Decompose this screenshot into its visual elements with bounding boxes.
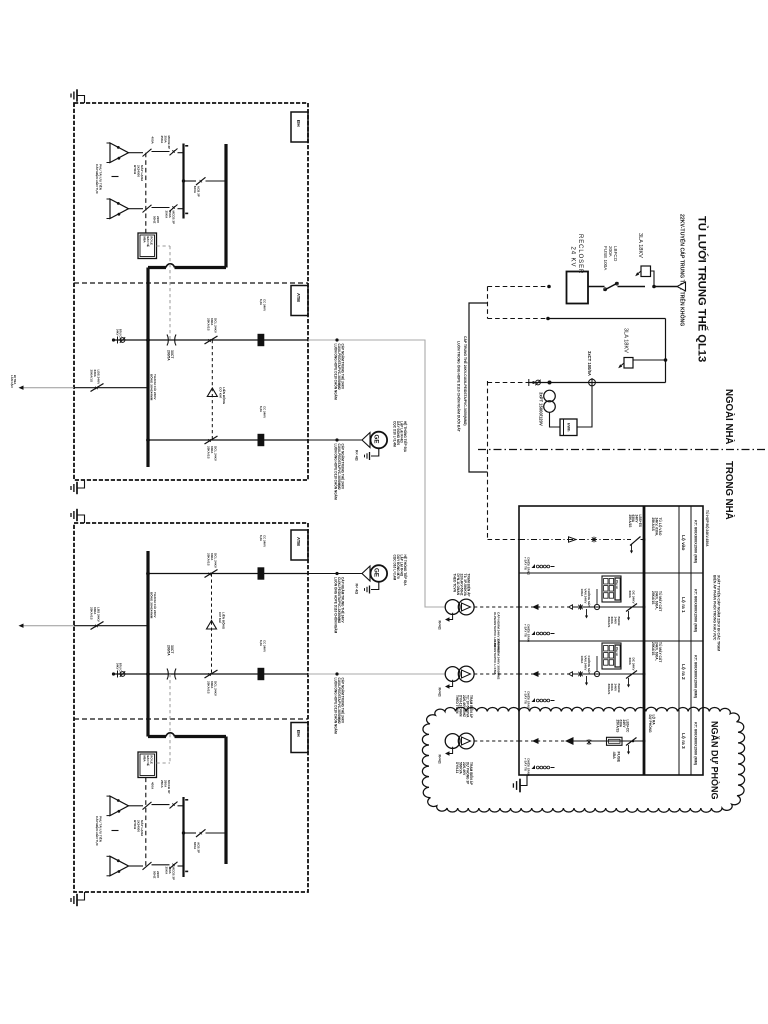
svg-text:R< 4Ω: R< 4Ω <box>355 450 359 461</box>
svg-text:25KA/1S: 25KA/1S <box>651 518 655 532</box>
svg-text:200/5A: 200/5A <box>166 350 170 361</box>
svg-text:CƠ KHÍ: CƠ KHÍ <box>219 387 224 398</box>
svg-text:RECLOSER: RECLOSER <box>577 234 583 274</box>
wire: riser to metering <box>548 319 666 383</box>
svg-text:25KA/1S: 25KA/1S <box>651 591 655 605</box>
svg-text:3LA 18KV: 3LA 18KV <box>637 233 643 258</box>
MV cable feeder 2 (box B, with CT+fuse) <box>112 640 308 697</box>
cell 2 aux symbols <box>523 624 554 643</box>
wire: loop feeder leaving page (box B) <box>19 624 75 628</box>
svg-text:50HZ: 50HZ <box>153 216 157 224</box>
wire: box B feeder 1 to grounding set GE2 <box>308 572 362 634</box>
svg-text:BTU/H: BTU/H <box>133 820 137 829</box>
svg-text:25KA/1S: 25KA/1S <box>207 318 211 331</box>
cell 2: feeder Lo ra 1 <box>519 576 646 627</box>
svg-text:CẤP ĐIỆN LIÊN TỤC: CẤP ĐIỆN LIÊN TỤC <box>95 816 100 847</box>
grounding set GE1 (R<4 ohm) <box>355 421 409 461</box>
svg-text:BTU/H: BTU/H <box>133 165 137 174</box>
svg-text:25KA: 25KA <box>165 867 169 876</box>
node: line tap to arrester LA1 <box>652 285 656 289</box>
wire: metering line <box>528 382 666 384</box>
svg-text:Lộ ra 1: Lộ ra 1 <box>680 597 686 613</box>
wire: control dashed link (box B) <box>157 674 171 763</box>
svg-text:600A: 600A <box>193 842 197 850</box>
svg-text:CẤP ĐIỆN LIÊN TỤC: CẤP ĐIỆN LIÊN TỤC <box>95 164 100 195</box>
transformer T3 (spare, in cloud) <box>438 733 520 786</box>
svg-text:BIẾN ÁP PHÂN PHỐI TRONG KHU VỰ: BIẾN ÁP PHÂN PHỐI TRONG KHU VỰC <box>712 575 717 641</box>
cell 1: incoming (Lo vao) <box>519 515 646 554</box>
svg-text:ATM: ATM <box>296 293 301 302</box>
svg-text:NGĂN DỰ PHÒNG: NGĂN DỰ PHÒNG <box>710 721 721 799</box>
svg-text:MBA: MBA <box>142 237 146 243</box>
svg-text:DYN-11: DYN-11 <box>455 762 459 773</box>
svg-text:kWh: kWh <box>567 423 572 432</box>
svg-text:400A: 400A <box>151 137 155 145</box>
svg-text:10KA: 10KA <box>580 656 584 665</box>
svg-text:TỦ LƯỚI TRUNG THẾ QL13: TỦ LƯỚI TRUNG THẾ QL13 <box>696 216 709 362</box>
svg-text:25KA: 25KA <box>160 780 164 789</box>
kWh meter <box>550 383 593 436</box>
svg-text:TỦ HỢP BỘ 24KV-630A: TỦ HỢP BỘ 24KV-630A <box>705 510 710 547</box>
svg-text:LUỒN TRONG ỐNG HDPE D110 CHÔN: LUỒN TRONG ỐNG HDPE D110 CHÔN NGẦM DƯỚI … <box>457 341 462 433</box>
wire: 22kV main line <box>588 286 677 288</box>
svg-text:CÁP TRUNG THẾ 24KV-CU/XLPE/DST: CÁP TRUNG THẾ 24KV-CU/XLPE/DSTA/PVC-3X50… <box>463 336 468 426</box>
svg-text:LUỒN ỐNG HDPE D110 CHÔN NGẦM: LUỒN ỐNG HDPE D110 CHÔN NGẦM <box>334 344 339 400</box>
LV sub busbar (box A) <box>184 144 189 219</box>
MV cable feeder 2 (box A, to GE ground set) <box>146 406 308 462</box>
svg-text:KT: 800X800X2000 (MM): KT: 800X800X2000 (MM) <box>694 655 698 699</box>
labels LV section (box B) <box>95 780 176 880</box>
svg-text:25KA: 25KA <box>160 136 164 145</box>
svg-text:3LA 18KV: 3LA 18KV <box>623 328 629 353</box>
relay/control box (box A) <box>138 153 157 259</box>
svg-text:6,3A: 6,3A <box>259 640 263 647</box>
ground (box B top-left) <box>71 509 85 523</box>
svg-text:25KA/1S: 25KA/1S <box>651 642 655 656</box>
svg-text:+ SẤY TỦ: + SẤY TỦ <box>523 691 528 704</box>
svg-text:50HZ: 50HZ <box>153 871 157 879</box>
svg-text:FUSE 100A: FUSE 100A <box>603 246 608 271</box>
cell 4: spare feeder Lo ra 3 <box>519 720 646 763</box>
wire: control dashed link (box A) <box>157 246 171 340</box>
svg-text:25KA/1S: 25KA/1S <box>90 370 94 383</box>
svg-text:TRONG NHÀ: TRONG NHÀ <box>723 461 734 520</box>
box A MV section label ATM <box>291 286 308 316</box>
cell 1 aux symbols <box>523 557 554 576</box>
MV riser busbar (box A) <box>148 283 158 467</box>
svg-text:6,3A: 6,3A <box>259 535 263 542</box>
MV feeder 1 (box B, to GE ground set) <box>146 535 308 580</box>
svg-text:DỰ PHÒNG: DỰ PHÒNG <box>648 715 653 734</box>
cloud: spare bay boundary <box>422 707 744 812</box>
svg-text:25KA/1S: 25KA/1S <box>615 720 619 733</box>
svg-text:Phụ tải: Phụ tải <box>615 580 619 589</box>
svg-text:25KA/1S: 25KA/1S <box>207 446 211 459</box>
svg-text:ĐỒNG 3X40X4MM: ĐỒNG 3X40X4MM <box>149 592 154 619</box>
relay/control box (box B) <box>138 752 157 866</box>
LV main busbar (box A, thick) <box>148 144 226 283</box>
surge arrester 3LA 18KV (metering side) <box>618 328 667 368</box>
svg-text:45A: 45A <box>612 752 617 759</box>
svg-text:THEO TCVN: THEO TCVN <box>453 574 457 593</box>
svg-text:KT: 800X800X2000 (MM): KT: 800X800X2000 (MM) <box>694 722 698 766</box>
MV loop LBS to neighbour (box B) <box>74 607 148 630</box>
incoming overhead line arrow <box>677 282 686 291</box>
transformer T1 22/0.4kV <box>438 574 520 653</box>
svg-text:XLPE/DSTA/PVC L=15M: XLPE/DSTA/PVC L=15M <box>493 639 497 674</box>
mechanical interlock (box A) <box>207 340 227 440</box>
ground (box A top-left) <box>71 89 85 103</box>
mechanical interlock (box B) <box>207 574 227 675</box>
svg-text:LÂN CẬN: LÂN CẬN <box>10 375 15 388</box>
LV sub busbar (box B) <box>184 797 189 877</box>
LV tie breaker branch (box B) <box>182 829 226 853</box>
ground (box A bottom-left) <box>71 480 85 494</box>
svg-text:600A: 600A <box>628 658 632 666</box>
cell dividers <box>519 573 703 641</box>
cell 3 aux symbols <box>523 691 554 710</box>
svg-text:ĐH: ĐH <box>296 120 301 127</box>
svg-text:30KA/S: 30KA/S <box>607 684 611 695</box>
svg-text:10KA: 10KA <box>580 589 584 598</box>
svg-text:400A: 400A <box>151 782 155 790</box>
svg-text:GE: GE <box>373 568 380 577</box>
wire: dashed cable duct down to indoor cell <box>488 381 529 540</box>
LV feeder load 1 (box A) <box>107 143 184 163</box>
CT 3xCT 100/5A <box>587 351 595 387</box>
cell 3: feeder Lo ra 2 <box>519 643 646 694</box>
cell name labels <box>680 535 686 749</box>
svg-text:ĐỒNG 3X40X4MM: ĐỒNG 3X40X4MM <box>149 374 154 401</box>
main busbar 24kV <box>643 506 646 775</box>
svg-text:Lộ ra 3: Lộ ra 3 <box>680 733 686 749</box>
svg-text:600A: 600A <box>628 591 632 599</box>
LV feeder load 2 (box A) <box>107 199 184 219</box>
box B LV section label DH <box>291 723 308 753</box>
svg-text:24KV: 24KV <box>116 329 120 336</box>
wire: box A feeder 1 to transformer T1 (gray) <box>308 338 445 607</box>
svg-text:CƠ KHÍ: CƠ KHÍ <box>218 612 223 623</box>
svg-text:25KA/1S: 25KA/1S <box>628 515 632 528</box>
label column rules <box>679 506 691 775</box>
wire: loop feeder leaving page (box A) <box>10 375 74 390</box>
LV main busbar (box B, thick) <box>148 719 226 864</box>
svg-text:Lộ vào: Lộ vào <box>680 535 686 551</box>
node: PT tap <box>548 381 552 385</box>
LV feeder load 1 (box B) <box>107 796 184 816</box>
labels LV section (box A) <box>95 136 176 225</box>
recloser <box>567 234 589 304</box>
ground (box B bottom-left) <box>71 892 85 906</box>
cell size labels <box>694 520 698 766</box>
svg-text:6,3A: 6,3A <box>259 299 263 306</box>
svg-text:R< 4Ω: R< 4Ω <box>355 584 359 595</box>
svg-text:R<4Ω: R<4Ω <box>438 688 442 697</box>
cell 4 aux symbols <box>523 758 554 777</box>
svg-text:3xPT 15000/120V: 3xPT 15000/120V <box>539 392 544 426</box>
svg-text:KT: 800X800X2000 (MM): KT: 800X800X2000 (MM) <box>694 520 698 564</box>
svg-text:MBA: MBA <box>142 756 146 762</box>
svg-text:25KA/1S: 25KA/1S <box>207 681 211 694</box>
svg-text:24 KV: 24 KV <box>569 247 575 268</box>
wire: dashed link recloser to cable head <box>488 285 551 321</box>
svg-text:RƠ LE: RƠ LE <box>150 756 154 765</box>
svg-text:25KA/1S: 25KA/1S <box>90 607 94 620</box>
svg-text:+ SẤY TỦ: + SẤY TỦ <box>523 758 528 771</box>
svg-text:LUỒN ỐNG HDPE D110 CHÔN NGẦM: LUỒN ỐNG HDPE D110 CHÔN NGẦM <box>334 444 339 500</box>
svg-text:CỌC D16 L=2,4M: CỌC D16 L=2,4M <box>393 555 397 581</box>
box A section divider <box>74 282 308 284</box>
PT 3xPT 15000/120V <box>539 390 556 426</box>
wire: box B feeder 2 to transformer T2 (gray) <box>308 672 445 734</box>
svg-text:LUỒN ỐNG HDPE D110 CHÔN NGẦM: LUỒN ỐNG HDPE D110 CHÔN NGẦM <box>334 678 339 734</box>
svg-text:25KA/1S: 25KA/1S <box>207 553 211 566</box>
svg-text:200/5A: 200/5A <box>166 645 170 656</box>
svg-text:30KA/S: 30KA/S <box>607 617 611 628</box>
indoor switchgear cabinet outline <box>519 506 703 775</box>
svg-text:+ SẤY TỦ: + SẤY TỦ <box>523 557 528 570</box>
svg-text:R<4Ω: R<4Ω <box>438 755 442 764</box>
MV cable feeder 1 (box A, with CT+fuse) <box>112 299 308 361</box>
underground cable run (bracket) <box>457 303 488 472</box>
cable termination <box>529 379 541 386</box>
LBFCO fuse cutout <box>603 246 619 291</box>
title: TU LUOI TRUNG THE QL13 <box>679 214 709 362</box>
station box A outline <box>74 103 308 480</box>
box A LV section label DH <box>291 112 308 142</box>
svg-text:KT: 800X800X2000 (MM): KT: 800X800X2000 (MM) <box>694 589 698 633</box>
station box B outline <box>74 523 308 892</box>
svg-text:Phụ tải: Phụ tải <box>615 647 619 656</box>
wire: box A feeder 2 to grounding set GE1 <box>308 438 362 500</box>
cabinet notes (right side) <box>705 510 722 651</box>
box B section divider <box>74 718 308 720</box>
cell rating labels <box>648 518 663 734</box>
svg-text:R<4Ω: R<4Ω <box>438 621 442 630</box>
ground (switchgear) <box>513 775 527 792</box>
LV tie breaker branch (box A) <box>182 177 226 197</box>
svg-text:600A: 600A <box>193 186 197 194</box>
box B MV section label ATM <box>291 530 308 560</box>
svg-text:CỌC D16 L=2,4M: CỌC D16 L=2,4M <box>393 421 397 447</box>
svg-text:RƠ LE: RƠ LE <box>150 237 154 246</box>
transformer T2 22/0.4kV <box>438 639 520 719</box>
svg-text:6,3A: 6,3A <box>259 406 263 413</box>
svg-text:GE: GE <box>373 435 380 444</box>
MV riser busbar (box B) <box>148 551 158 719</box>
svg-text:24KV: 24KV <box>116 663 120 670</box>
svg-text:ATM: ATM <box>296 537 301 546</box>
surge arrester 3LA 18KV (line side) <box>635 233 654 287</box>
svg-text:NGOÀI NHÀ: NGOÀI NHÀ <box>723 389 734 444</box>
LV feeder load 2 (box B) <box>107 856 184 876</box>
svg-text:3xCT 100/5A: 3xCT 100/5A <box>587 351 592 376</box>
boundary NGOAI NHA / TRONG NHA <box>478 389 768 520</box>
svg-text:ĐH: ĐH <box>296 730 301 737</box>
svg-text:+ SẤY TỦ: + SẤY TỦ <box>523 624 528 637</box>
MV loop LBS to neighbour (box A) <box>74 370 148 392</box>
grounding set GE2 (R<4 ohm) <box>355 555 409 595</box>
svg-text:Lộ ra 2: Lộ ra 2 <box>680 664 686 680</box>
svg-text:LUỒN ỐNG HDPE D110 CHÔN NGẦM: LUỒN ỐNG HDPE D110 CHÔN NGẦM <box>334 577 339 633</box>
svg-text:25KA: 25KA <box>165 211 169 220</box>
svg-text:22KV-TUYẾN CÁP TRUNG THẾ TRÊN: 22KV-TUYẾN CÁP TRUNG THẾ TRÊN KHÔNG <box>679 214 687 326</box>
